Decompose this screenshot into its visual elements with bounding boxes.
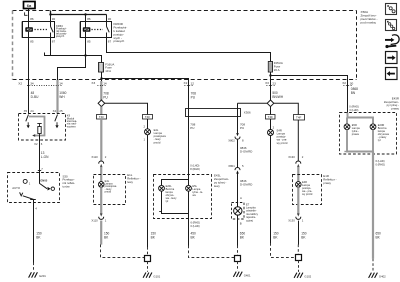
relay KR63 label bbox=[55, 24, 67, 38]
svg-text:24: 24 bbox=[30, 109, 34, 113]
svg-text:X3: X3 bbox=[265, 81, 269, 85]
icon box: component info 1 bbox=[386, 4, 397, 15]
connector X2 dotted line bbox=[27, 85, 62, 87]
ground G201 bbox=[29, 272, 38, 277]
inline connector X110 bbox=[99, 161, 104, 164]
svg-text:pod maską: pod maską bbox=[361, 20, 376, 24]
E43R internal feed tee (grey) bbox=[348, 113, 374, 124]
svg-text:86: 86 bbox=[87, 17, 91, 21]
dashed to ground G401 bbox=[237, 262, 239, 271]
svg-text:G102: G102 bbox=[304, 275, 311, 279]
wire lamp E4R ground bbox=[270, 136, 272, 244]
svg-text:BK: BK bbox=[273, 236, 278, 240]
svg-text:prawych: prawych bbox=[114, 39, 125, 43]
wire 13 L-GN label bbox=[41, 151, 49, 159]
E43R internal ground merge (grey) bbox=[344, 151, 347, 153]
svg-text:2: 2 bbox=[105, 155, 107, 159]
svg-text:87: 87 bbox=[108, 39, 112, 43]
svg-text:BK: BK bbox=[301, 236, 306, 240]
variant pin labels at E43L bbox=[190, 164, 200, 171]
wire E7 ground 650 BK bbox=[237, 215, 239, 245]
wire E1L ground 150 BK (grey) bbox=[100, 221, 102, 245]
svg-text:woziem: woziem bbox=[67, 124, 77, 128]
connector X2 pin labels at fuse block bbox=[18, 81, 353, 85]
svg-text:tył: tył bbox=[378, 138, 381, 142]
relay KR63R pin 85 wire bbox=[85, 32, 87, 56]
tail lamp E43L label bbox=[214, 174, 229, 188]
wire 708 PU below X306 to tail lamp box bbox=[190, 122, 195, 129]
svg-text:87: 87 bbox=[52, 39, 56, 43]
svg-text:10 A: 10 A bbox=[105, 69, 111, 73]
relay KR63R contact blade bbox=[107, 27, 110, 33]
svg-text:6a: 6a bbox=[27, 3, 32, 8]
lamp E20R side marker bbox=[370, 124, 376, 130]
svg-text:30: 30 bbox=[108, 17, 112, 21]
wire bus to relay2 pin 86 bbox=[85, 15, 87, 28]
headlamp E1R label bbox=[323, 174, 336, 185]
svg-text:X110: X110 bbox=[91, 219, 98, 223]
lamp E4L label bbox=[105, 179, 117, 193]
svg-text:BK: BK bbox=[104, 236, 109, 240]
K9 internal driver right bbox=[55, 115, 58, 122]
svg-text:12: 12 bbox=[191, 82, 195, 86]
lamp E20R label bbox=[378, 123, 390, 142]
node relay1 pin30 bbox=[49, 13, 51, 15]
K9 internal driver left bbox=[26, 115, 29, 122]
headlamp E1L box bbox=[94, 175, 126, 205]
wire 1060 WH label bbox=[59, 91, 66, 99]
lamp E5L tail bbox=[186, 185, 192, 191]
fuse F16UA bbox=[99, 63, 104, 73]
wire lamp E4L down (grey) bbox=[100, 187, 102, 214]
svg-text:PU: PU bbox=[240, 126, 244, 130]
dashed to ground G102 bbox=[298, 261, 300, 272]
relay KR63R pin 87 wire to fuse F05UA bbox=[107, 33, 271, 62]
svg-text:GN05: GN05 bbox=[40, 178, 48, 182]
variant pin labels at E43R feed bbox=[349, 105, 359, 112]
wire 708 PU label (left) bbox=[103, 91, 109, 99]
K9 internal resistor bbox=[37, 123, 41, 125]
svg-text:1: 1 bbox=[29, 181, 31, 185]
lamp E4L (in E1L) bbox=[98, 182, 104, 188]
icon box: prev arrow bbox=[386, 68, 398, 80]
svg-text:G401: G401 bbox=[244, 274, 251, 278]
svg-text:4: 4 bbox=[35, 207, 37, 211]
wire X130 to lamp E4R (grey) bbox=[297, 167, 299, 182]
svg-text:X2: X2 bbox=[18, 81, 22, 85]
relay KR63 box bbox=[21, 22, 23, 38]
dashed ground run to splice square S1 bbox=[101, 245, 145, 258]
feed bus to relay pins 30 bbox=[51, 11, 107, 15]
svg-text:86: 86 bbox=[30, 17, 34, 21]
hook at border crossing bbox=[25, 12, 28, 15]
wire lamp E4L front ground 150 BK bbox=[147, 135, 149, 247]
inline connector X130 bbox=[296, 161, 301, 164]
inline connector X801 bbox=[235, 168, 240, 171]
svg-text:G201: G201 bbox=[39, 274, 46, 278]
svg-text:0 (RHD): 0 (RHD) bbox=[376, 162, 386, 166]
icon box: next arrow bbox=[386, 52, 398, 64]
svg-text:BK: BK bbox=[376, 236, 381, 240]
relay KR63 contact blade bbox=[51, 27, 54, 33]
E43L internal feed tee bbox=[162, 175, 189, 186]
bus relay outputs to fuse F16UA bbox=[45, 53, 102, 63]
lamp E4R front (variant) bbox=[268, 130, 274, 136]
option box T4F right1 bbox=[266, 115, 276, 120]
dashed to ground G402 bbox=[372, 259, 374, 272]
svg-text:X130: X130 bbox=[288, 155, 295, 159]
connector at E1R exit X130 bbox=[297, 213, 300, 216]
ground G402 bbox=[369, 273, 378, 278]
fuse F05UA output wire bbox=[270, 72, 272, 100]
svg-text:6: 6 bbox=[41, 142, 43, 146]
lamp E20L side marker bbox=[159, 185, 165, 191]
wire X110 to lamp E4L (grey) bbox=[100, 167, 102, 182]
relay KR63 pin labels bbox=[30, 17, 55, 44]
lamp E4L front (variant) feed bbox=[147, 119, 149, 129]
lamp E7 label bbox=[246, 202, 259, 222]
svg-text:prawa: prawa bbox=[352, 132, 360, 136]
option box T4F right2 bbox=[294, 115, 305, 121]
svg-text:20 A: 20 A bbox=[274, 68, 280, 72]
svg-text:torów: torów bbox=[63, 185, 71, 189]
S30 lever bbox=[23, 196, 34, 200]
svg-text:tył: tył bbox=[166, 199, 169, 203]
inline connector X306 bbox=[186, 109, 241, 117]
module K9 pin labels bbox=[24, 109, 63, 146]
relay KR63R pin labels bbox=[87, 17, 111, 44]
lamp E4L front label bbox=[154, 128, 167, 144]
ground G401 bbox=[233, 272, 242, 277]
svg-text:BN: BN bbox=[351, 91, 356, 95]
lamp E5L label bbox=[192, 184, 203, 197]
connector at E1L exit X110 bbox=[100, 213, 103, 216]
svg-text:T4F: T4F bbox=[99, 115, 105, 119]
wire 0846 D-GN/RD lower bbox=[237, 173, 239, 199]
node fuse2 output split bbox=[269, 74, 271, 76]
relay KR63 pin 85 wire bbox=[28, 32, 30, 114]
tail lamp E43R label bbox=[384, 96, 400, 110]
svg-text:przód: przód bbox=[105, 189, 112, 193]
wire 150 BK label (S30) bbox=[36, 231, 42, 239]
svg-text:X130: X130 bbox=[288, 219, 295, 223]
svg-text:wy przód: wy przód bbox=[302, 192, 313, 196]
svg-text:X802: X802 bbox=[228, 138, 235, 142]
svg-text:lewy: lewy bbox=[127, 180, 133, 184]
svg-text:cyjnej: cyjnej bbox=[246, 218, 253, 222]
headlamp E1R box bbox=[293, 175, 322, 205]
lamp E4L front (variant) bbox=[145, 129, 151, 135]
svg-text:X2: X2 bbox=[342, 81, 346, 85]
svg-text:BK: BK bbox=[191, 236, 196, 240]
svg-text:8: 8 bbox=[242, 138, 244, 142]
svg-text:T4F: T4F bbox=[268, 115, 274, 119]
wire lamp E4R down bbox=[297, 187, 299, 214]
splice square S1 bbox=[145, 256, 151, 262]
lamp E7 bbox=[234, 200, 242, 216]
svg-text:X4: X4 bbox=[53, 109, 57, 113]
relay KR63 pin 87 wire bbox=[50, 33, 52, 56]
S30 internal contact from pin 7 bbox=[40, 173, 48, 189]
lamp E4R front feed bbox=[270, 119, 272, 130]
svg-text:D-BU: D-BU bbox=[31, 95, 39, 99]
svg-text:T4F: T4F bbox=[145, 115, 151, 119]
fuse F05UA bbox=[268, 62, 272, 73]
module K9 box bbox=[19, 114, 66, 141]
lamp E5R tail bbox=[344, 124, 350, 130]
wire 708 PU label (X2-12) bbox=[191, 91, 197, 99]
lamp E20L label bbox=[166, 184, 178, 203]
svg-text:G402: G402 bbox=[379, 275, 386, 279]
dashed to ground G101 bbox=[147, 262, 149, 272]
svg-text:8 (RHD): 8 (RHD) bbox=[190, 167, 200, 171]
wire 48 D-BU label bbox=[31, 91, 39, 99]
E43L exit wire bbox=[188, 214, 190, 246]
wire to X110 bbox=[100, 119, 102, 161]
tail lamp assembly E43L box bbox=[154, 175, 212, 219]
K9 output wire X2-6 bbox=[39, 136, 41, 173]
svg-text:X306: X306 bbox=[244, 110, 251, 114]
svg-text:X3: X3 bbox=[91, 81, 95, 85]
wire 1060 WH (grey) bbox=[56, 80, 58, 114]
lamp E5R label bbox=[352, 123, 360, 136]
svg-text:B: B bbox=[240, 221, 242, 225]
svg-text:14: 14 bbox=[103, 82, 107, 86]
relay KR63R coil bbox=[83, 27, 91, 32]
svg-text:0 (LHD): 0 (LHD) bbox=[191, 224, 200, 228]
lamp E4R in-box label bbox=[302, 180, 313, 196]
svg-text:D-GN/RD: D-GN/RD bbox=[240, 150, 252, 154]
svg-text:30: 30 bbox=[350, 82, 354, 86]
node fuse output split bbox=[100, 77, 102, 79]
svg-text:2: 2 bbox=[302, 155, 304, 159]
svg-text:14: 14 bbox=[59, 82, 63, 86]
terminal tick at S30 bbox=[38, 170, 41, 172]
svg-text:1: 1 bbox=[143, 137, 145, 141]
wire branch to X2-30 right tail lamp bbox=[271, 76, 348, 113]
license lamp E7 box bbox=[232, 203, 245, 220]
svg-text:1: 1 bbox=[105, 218, 107, 222]
svg-text:7: 7 bbox=[41, 167, 43, 171]
svg-text:3 (LHD): 3 (LHD) bbox=[349, 108, 358, 112]
wire E1R ground 150 BK bbox=[298, 221, 300, 245]
K9 internal grey path bbox=[29, 117, 45, 136]
svg-text:jowych: jowych bbox=[55, 34, 65, 38]
svg-text:lewy: lewy bbox=[214, 184, 220, 188]
wire diamond2 right branch bbox=[274, 103, 299, 114]
tail lamp assembly E43R box bbox=[340, 113, 397, 155]
icon: connector repair bbox=[385, 35, 399, 48]
option box T4F left bbox=[97, 115, 107, 120]
svg-text:PU: PU bbox=[103, 96, 108, 100]
relay KR63R box bbox=[79, 22, 81, 38]
svg-text:1: 1 bbox=[302, 218, 304, 222]
svg-text:D-GN/RD: D-GN/RD bbox=[240, 183, 252, 187]
svg-text:PU: PU bbox=[190, 126, 194, 130]
relay KR63 coil-contact dotted link bbox=[35, 29, 48, 31]
fuse F16UA output wire bbox=[101, 72, 103, 81]
svg-text:WH: WH bbox=[59, 95, 65, 99]
wire 500 BN/WH label bbox=[272, 91, 283, 99]
S30 wiper glyph bbox=[20, 192, 23, 195]
E43R exit ground wire (grey) bbox=[372, 152, 374, 259]
svg-text:BK: BK bbox=[240, 236, 245, 240]
svg-text:wy przód: wy przód bbox=[277, 141, 288, 145]
dashed ground run to splice S2 bbox=[189, 246, 235, 258]
relay KR63R coil-contact dotted link bbox=[92, 29, 104, 31]
svg-text:BK: BK bbox=[151, 236, 156, 240]
wire 0846 D-GN/RD bbox=[237, 140, 239, 168]
wire E7 feed through X306 bbox=[237, 103, 239, 108]
svg-text:2: 2 bbox=[143, 125, 145, 129]
wire diamond2 left branch to X306 bbox=[238, 102, 268, 104]
option box T4F mid bbox=[143, 115, 153, 120]
svg-text:5: 5 bbox=[242, 164, 244, 168]
dashed ground run to splice S3 bbox=[271, 243, 296, 258]
svg-text:23: 23 bbox=[272, 82, 276, 86]
svg-text:prawy: prawy bbox=[323, 181, 331, 185]
svg-text:X801: X801 bbox=[228, 164, 235, 168]
svg-text:34: 34 bbox=[30, 82, 34, 86]
switch S30 box bbox=[8, 173, 60, 203]
wire 0868 BN label bbox=[351, 87, 358, 95]
svg-text:A: A bbox=[240, 196, 242, 200]
S30 bottom terminal bbox=[30, 199, 36, 201]
svg-text:X2: X2 bbox=[34, 142, 38, 146]
svg-text:G101: G101 bbox=[153, 274, 160, 278]
relay KR63R label bbox=[114, 22, 128, 43]
svg-text:30: 30 bbox=[52, 17, 56, 21]
module K9 label bbox=[67, 114, 77, 129]
wire branch to X2-12 bbox=[102, 79, 189, 175]
ground G102 bbox=[294, 273, 303, 278]
svg-text:wa: wa bbox=[192, 194, 196, 197]
svg-text:przód: przód bbox=[154, 140, 161, 144]
wire diamond to branch right bbox=[105, 103, 148, 114]
svg-text:X2: X2 bbox=[184, 81, 188, 85]
wire diamond down bbox=[100, 107, 102, 115]
svg-text:T4F: T4F bbox=[296, 115, 302, 119]
svg-text:PU: PU bbox=[191, 96, 196, 100]
svg-text:AUTO: AUTO bbox=[12, 186, 21, 190]
svg-text:25: 25 bbox=[59, 109, 63, 113]
lamp E4R (in E1R) bbox=[296, 182, 302, 188]
icon box: component info 2 bbox=[386, 20, 397, 31]
wire S30 to ground G201 bbox=[33, 203, 35, 263]
splice diamond right bbox=[267, 100, 274, 107]
fuse F16UA label bbox=[105, 62, 114, 73]
node on bus bbox=[84, 54, 86, 56]
connector dotted marks bbox=[98, 85, 107, 87]
svg-text:X5: X5 bbox=[24, 109, 28, 113]
ground G101 bbox=[143, 273, 152, 278]
wire diamond2 down bbox=[270, 107, 272, 115]
svg-text:BK: BK bbox=[36, 236, 41, 240]
switch S30 label bbox=[63, 174, 76, 188]
S30 indicator circle bbox=[23, 179, 27, 183]
fuse block X50A dashed border bbox=[13, 10, 357, 12]
wire bus to relay1 pin 30 bbox=[50, 15, 52, 27]
node relay2 pin86 bbox=[84, 13, 86, 15]
wire jog from bus to X2-14 bbox=[58, 56, 86, 81]
lamp E4R front label bbox=[277, 128, 288, 144]
splice square S2 bbox=[235, 256, 241, 262]
splice square S3 bbox=[296, 255, 302, 261]
svg-text:L-GN: L-GN bbox=[41, 155, 49, 159]
E43L internal ground merge bbox=[159, 211, 161, 213]
wire from tag 6a to relay coil bbox=[28, 9, 30, 28]
svg-text:2: 2 bbox=[273, 126, 275, 130]
svg-text:85: 85 bbox=[30, 39, 34, 43]
splice diamond left bbox=[98, 100, 105, 107]
svg-text:BN/WH: BN/WH bbox=[272, 95, 283, 99]
wire to X330 bbox=[297, 120, 299, 161]
svg-text:X110: X110 bbox=[91, 155, 98, 159]
inline connector X802 bbox=[236, 133, 239, 136]
fuse block X50A label bbox=[361, 10, 378, 24]
svg-text:85: 85 bbox=[87, 39, 91, 43]
circuit tag 6a bbox=[24, 2, 36, 9]
headlamp E1L label bbox=[127, 173, 140, 184]
wire bus to relay2 pin 30 bbox=[106, 15, 108, 27]
svg-text:prawy: prawy bbox=[391, 107, 399, 111]
fuse F05UA label bbox=[274, 61, 283, 72]
relay KR63 coil bbox=[25, 27, 33, 32]
